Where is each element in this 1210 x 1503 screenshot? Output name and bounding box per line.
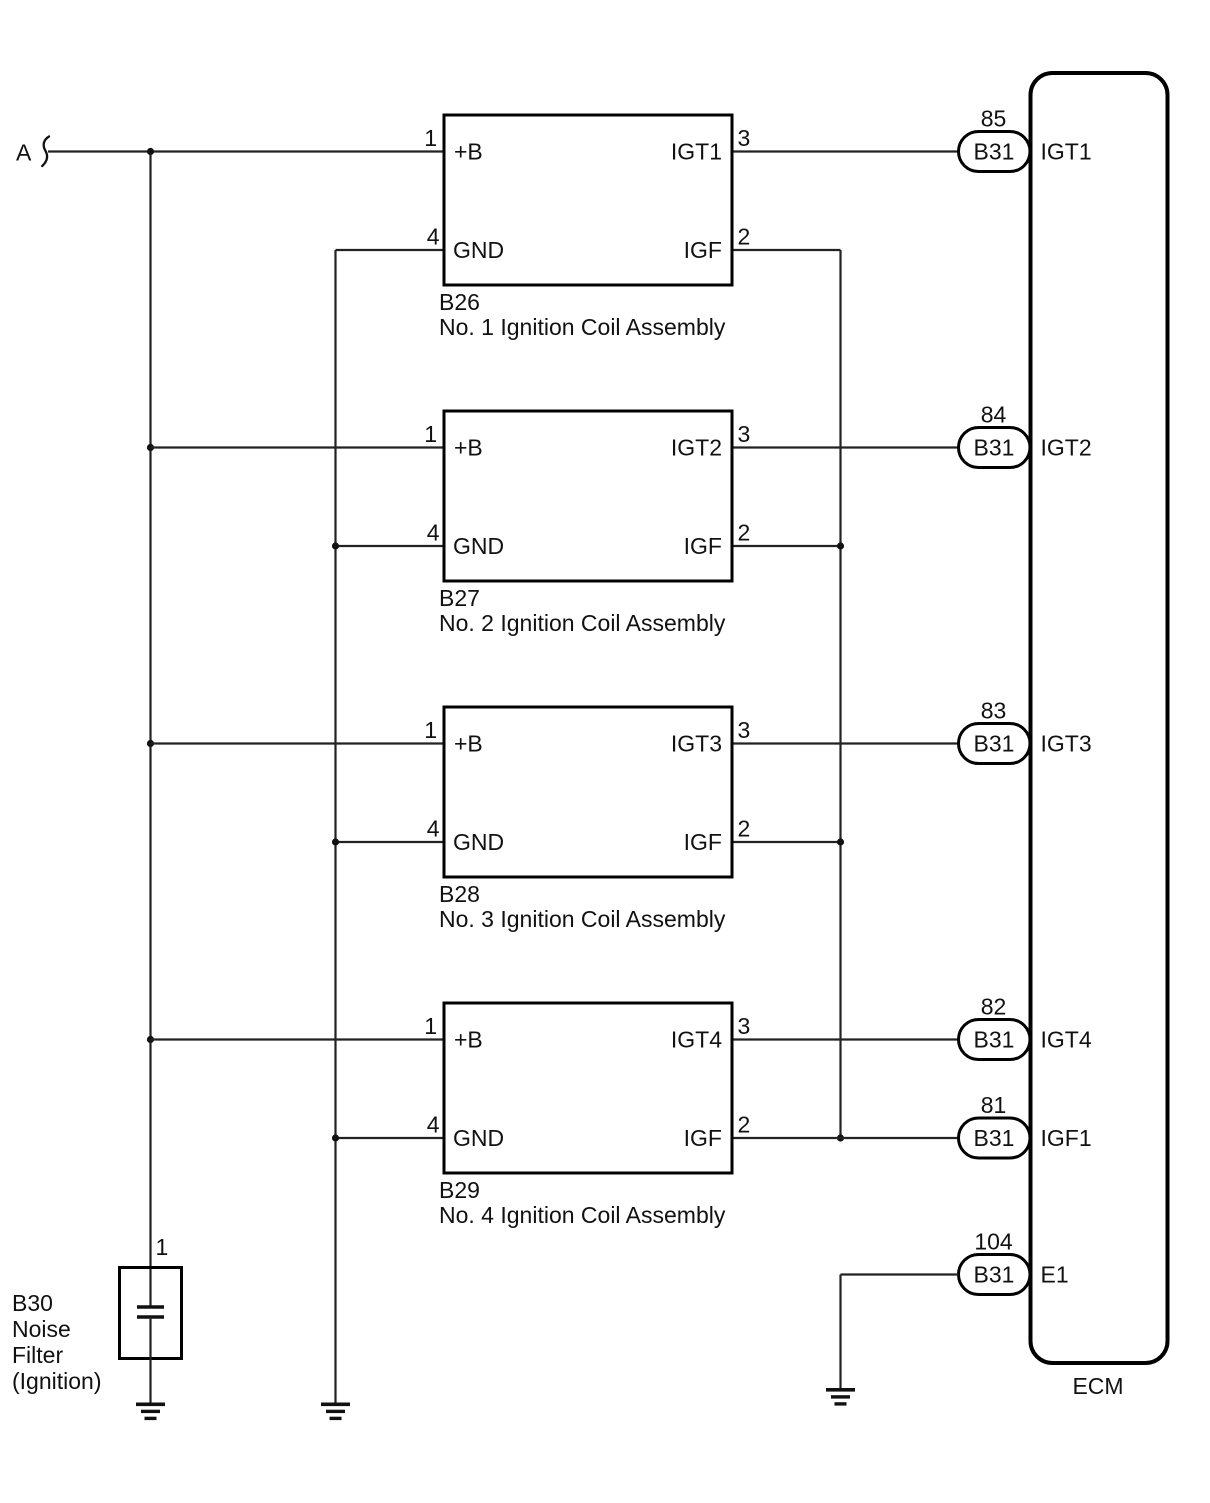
junction +B tap B29 (147, 1036, 154, 1043)
connector B31 pin 104 oval (959, 1255, 1031, 1295)
svg-text:IGF: IGF (684, 533, 722, 559)
wire: GND bus to B28 pin 4 (336, 841, 443, 843)
svg-text:4: 4 (427, 816, 440, 842)
svg-text:1: 1 (424, 1013, 437, 1039)
svg-text:A: A (16, 140, 32, 166)
svg-text:+B: +B (454, 435, 483, 461)
svg-text:B27: B27 (439, 585, 480, 611)
wire: B26 IGT1 to ECM connector (734, 150, 959, 152)
svg-text:E1: E1 (1041, 1262, 1069, 1288)
svg-text:1: 1 (424, 125, 437, 151)
wire: GND bus to B26 pin 4 (336, 249, 443, 251)
IGF vertical bus (839, 250, 841, 1138)
svg-text:+B: +B (454, 139, 483, 165)
svg-text:No. 4 Ignition Coil Assembly: No. 4 Ignition Coil Assembly (439, 1202, 726, 1228)
svg-text:2: 2 (738, 224, 751, 250)
svg-text:IGF: IGF (684, 1125, 722, 1151)
junction IGF bus (837, 1134, 844, 1141)
junction IGF bus (837, 542, 844, 549)
svg-text:4: 4 (427, 224, 440, 250)
break symbol at node A (42, 137, 49, 167)
wire: B28 IGF to IGF bus (734, 841, 841, 843)
svg-text:B31: B31 (974, 731, 1015, 757)
connector B31 pin 81 oval (959, 1118, 1031, 1158)
svg-text:+B: +B (454, 731, 483, 757)
svg-text:85: 85 (981, 106, 1007, 132)
GND vertical bus to ground (334, 250, 336, 1403)
svg-text:B31: B31 (974, 1027, 1015, 1053)
svg-text:B26: B26 (439, 289, 480, 315)
svg-text:(Ignition): (Ignition) (12, 1368, 101, 1394)
svg-text:B30: B30 (12, 1290, 53, 1316)
wire: E1 connector to ground drop (841, 1273, 959, 1275)
svg-text:No. 3 Ignition Coil Assembly: No. 3 Ignition Coil Assembly (439, 906, 726, 932)
svg-text:No. 1 Ignition Coil Assembly: No. 1 Ignition Coil Assembly (439, 314, 726, 340)
ignition coil B27 box outline (444, 411, 732, 581)
wire: B27 IGT2 to ECM connector (734, 446, 959, 448)
svg-text:IGF: IGF (684, 829, 722, 855)
svg-text:IGT3: IGT3 (1041, 731, 1092, 757)
svg-text:IGT4: IGT4 (1041, 1027, 1092, 1053)
svg-text:Filter: Filter (12, 1342, 63, 1368)
wire: GND bus to B27 pin 4 (336, 545, 443, 547)
wire: E1 vertical drop (839, 1275, 841, 1389)
wire: B26 IGF to IGF bus (734, 249, 841, 251)
svg-text:ECM: ECM (1072, 1373, 1123, 1399)
svg-text:1: 1 (424, 421, 437, 447)
junction +B tap B27 (147, 444, 154, 451)
ignition coil B29 box outline (444, 1003, 732, 1173)
wire: B29 IGF / IGF bus to ECM IGF1 connector (734, 1137, 959, 1139)
wire: +B bus to B27 pin 1 (151, 446, 443, 448)
ignition coil B28 box outline (444, 707, 732, 877)
svg-text:GND: GND (453, 829, 504, 855)
wire: capacitor to ground (149, 1317, 151, 1403)
svg-text:3: 3 (738, 1013, 751, 1039)
svg-text:83: 83 (981, 698, 1007, 724)
ground symbol (coil GND bus) (321, 1403, 350, 1407)
svg-text:IGT2: IGT2 (1041, 435, 1092, 461)
+B vertical bus from node A down to noise filter (149, 152, 151, 1308)
svg-text:1: 1 (156, 1234, 169, 1260)
svg-text:84: 84 (981, 402, 1007, 428)
svg-text:104: 104 (974, 1229, 1013, 1255)
wire: B27 IGF to IGF bus (734, 545, 841, 547)
ground symbol (ECM E1) (826, 1388, 855, 1392)
svg-text:GND: GND (453, 237, 504, 263)
svg-text:3: 3 (738, 125, 751, 151)
wire: B28 IGT3 to ECM connector (734, 742, 959, 744)
svg-text:2: 2 (738, 816, 751, 842)
svg-text:B28: B28 (439, 881, 480, 907)
svg-text:GND: GND (453, 1125, 504, 1151)
connector B31 pin 82 oval (959, 1020, 1031, 1060)
junction +B tap B28 (147, 740, 154, 747)
junction IGF bus (837, 838, 844, 845)
svg-text:IGT1: IGT1 (1041, 139, 1092, 165)
A/+B bus junction (147, 148, 154, 155)
svg-text:B31: B31 (974, 1262, 1015, 1288)
wire: +B bus to B28 pin 1 (151, 742, 443, 744)
svg-text:B31: B31 (974, 435, 1015, 461)
connector B31 pin 84 oval (959, 428, 1031, 468)
svg-text:B31: B31 (974, 139, 1015, 165)
svg-text:No. 2 Ignition Coil Assembly: No. 2 Ignition Coil Assembly (439, 610, 726, 636)
ignition coil B26 box outline (444, 115, 732, 285)
ECM box outline (1031, 73, 1168, 1363)
svg-text:B31: B31 (974, 1125, 1015, 1151)
svg-text:GND: GND (453, 533, 504, 559)
svg-text:IGT1: IGT1 (671, 139, 722, 165)
svg-text:IGF1: IGF1 (1041, 1125, 1092, 1151)
svg-text:IGF: IGF (684, 237, 722, 263)
svg-text:1: 1 (424, 717, 437, 743)
junction GND bus (332, 838, 339, 845)
svg-text:2: 2 (738, 520, 751, 546)
svg-text:82: 82 (981, 994, 1007, 1020)
svg-text:B29: B29 (439, 1177, 480, 1203)
capacitor C (noise filter) bottom plate (137, 1315, 164, 1319)
svg-text:4: 4 (427, 1112, 440, 1138)
junction GND bus (332, 542, 339, 549)
svg-text:3: 3 (738, 717, 751, 743)
wire: +B bus to B29 pin 1 (151, 1038, 443, 1040)
junction GND bus (332, 1134, 339, 1141)
svg-text:+B: +B (454, 1027, 483, 1053)
capacitor C (noise filter) top plate (137, 1305, 164, 1309)
svg-text:81: 81 (981, 1092, 1007, 1118)
ground symbol (noise filter) (136, 1403, 165, 1407)
svg-text:2: 2 (738, 1112, 751, 1138)
wire: node A to B26 pin 1 (+B) (48, 150, 443, 152)
wire: B29 IGT4 to ECM connector (734, 1038, 959, 1040)
svg-text:IGT3: IGT3 (671, 731, 722, 757)
svg-text:IGT2: IGT2 (671, 435, 722, 461)
connector B31 pin 83 oval (959, 724, 1031, 764)
svg-text:3: 3 (738, 421, 751, 447)
svg-text:4: 4 (427, 520, 440, 546)
noise filter B30 box outline (120, 1268, 182, 1359)
svg-text:Noise: Noise (12, 1316, 71, 1342)
wire: GND bus to B29 pin 4 (336, 1137, 443, 1139)
connector B31 pin 85 oval (959, 132, 1031, 172)
svg-text:IGT4: IGT4 (671, 1027, 722, 1053)
